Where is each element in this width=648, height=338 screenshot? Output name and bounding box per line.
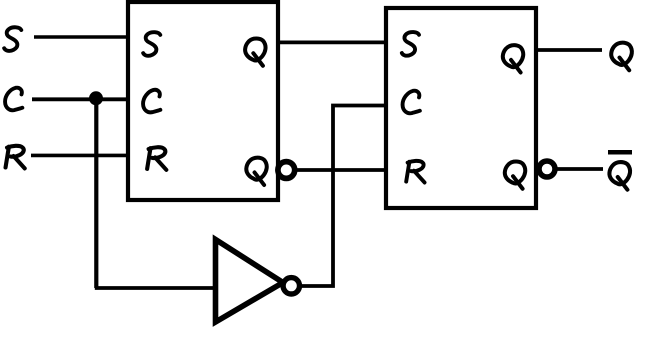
inverter U3 triangle: [216, 240, 284, 323]
U1 pin C label: [143, 90, 160, 113]
wire C input: [32, 97, 128, 101]
U1 pin Q label: [245, 38, 265, 65]
wire U1 Qbar to U2 R: [296, 168, 386, 172]
U2 Qbar bubble: [539, 161, 555, 177]
Qbar overline: [608, 150, 632, 155]
wire R input: [31, 154, 128, 158]
U2 pin R label: [406, 161, 424, 183]
U1 pin S label: [143, 32, 160, 56]
U1 Qbar bubble: [278, 162, 295, 179]
wire Qbar output: [556, 167, 603, 171]
U2 pin S label: [402, 32, 419, 56]
wire C vertical drop to inverter: [94, 99, 98, 288]
node R input label: [6, 146, 25, 169]
node C input label: [5, 88, 22, 111]
wire inverter input horizontal: [95, 286, 215, 290]
wire S input: [34, 35, 128, 39]
flip-flop U1: [128, 2, 278, 200]
U2 pin Q label: [503, 45, 523, 72]
node Q output label: [611, 43, 632, 71]
node Qbar output label: [609, 162, 630, 190]
U1 pin Qbar label: [246, 158, 266, 185]
wire U1 Q to U2 S: [278, 41, 386, 45]
wire Q output: [536, 48, 602, 52]
U2 pin Qbar label: [505, 161, 525, 188]
U1 pin R label: [147, 147, 166, 170]
node S input label: [4, 27, 21, 51]
flip-flop U2: [386, 8, 536, 208]
inverter U3 output bubble: [283, 278, 299, 294]
wire inverter output: [301, 106, 387, 287]
U2 pin C label: [403, 91, 420, 114]
junction dot on C: [89, 91, 103, 105]
